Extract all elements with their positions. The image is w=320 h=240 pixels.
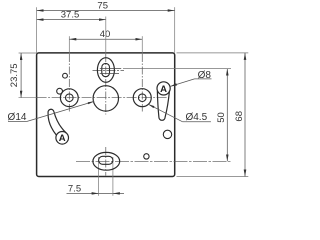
svg-text:7.5: 7.5 <box>68 183 81 194</box>
centerline horizontal main <box>19 97 37 99</box>
bottom slot inner obround <box>99 156 113 164</box>
big circle center <box>93 86 118 111</box>
extension line top edge right (68 dim) <box>177 52 249 54</box>
left kidney A circle <box>56 132 69 145</box>
small circle lower right <box>144 154 149 159</box>
svg-text:A: A <box>59 133 66 144</box>
svg-text:40: 40 <box>100 29 111 40</box>
leader diameter 8 <box>195 78 212 80</box>
top slot inner ellipse <box>102 63 110 76</box>
left counterbore outer <box>60 89 78 107</box>
top slot chord lower <box>100 73 119 75</box>
extension line bottom edge right (68 dim) <box>177 176 249 178</box>
left counterbore inner <box>66 94 74 102</box>
extension line left edge up (75/37.5 dims) <box>36 7 38 53</box>
svg-text:Ø4.5: Ø4.5 <box>185 112 207 123</box>
centerline vertical left counterbore <box>68 36 70 54</box>
dimension 75 <box>37 10 175 12</box>
right counterbore outer <box>133 89 151 107</box>
extension line top edge left (23.75 dim) <box>19 52 37 54</box>
top slot chord upper <box>100 68 121 70</box>
svg-text:Ø8: Ø8 <box>198 70 212 81</box>
dimension 7.5 <box>67 192 125 194</box>
dimension 23.75 <box>20 53 22 98</box>
leader diameter 4.5 <box>182 121 211 123</box>
centerline vertical bottom slot <box>105 147 107 176</box>
svg-text:75: 75 <box>97 1 108 12</box>
bottom slot outer ellipse <box>93 152 120 170</box>
svg-text:37.5: 37.5 <box>61 10 80 21</box>
extension line right edge up (75 dim) <box>174 7 176 53</box>
extension lines 7.5 dim <box>98 157 100 196</box>
dimension 68 <box>244 53 246 177</box>
right kidney slot neck <box>157 91 169 121</box>
small circle attached to left counterbore <box>57 88 63 94</box>
top slot outer ellipse <box>97 58 114 83</box>
medium circle lower right <box>163 130 171 138</box>
svg-text:A: A <box>160 84 167 95</box>
right counterbore inner <box>138 94 146 102</box>
centerline vertical right counterbore <box>141 36 143 54</box>
dimension 50 <box>226 69 228 162</box>
left kidney slot neck <box>48 109 66 135</box>
right kidney A circle <box>157 82 170 95</box>
svg-text:Ø14: Ø14 <box>8 112 27 123</box>
plate outline <box>37 53 175 177</box>
centerline top slot horizontal <box>93 70 125 72</box>
leader diameter 14 <box>8 121 26 123</box>
small circle upper left <box>63 73 68 78</box>
svg-text:68: 68 <box>234 111 245 122</box>
dimension 40 <box>69 38 142 40</box>
centerline vertical top slot / big circle <box>105 17 107 55</box>
dimension 37.5 <box>37 19 106 21</box>
centerline bottom slot horizontal <box>76 160 231 162</box>
svg-text:50: 50 <box>216 112 227 123</box>
svg-text:23.75: 23.75 <box>9 63 20 87</box>
